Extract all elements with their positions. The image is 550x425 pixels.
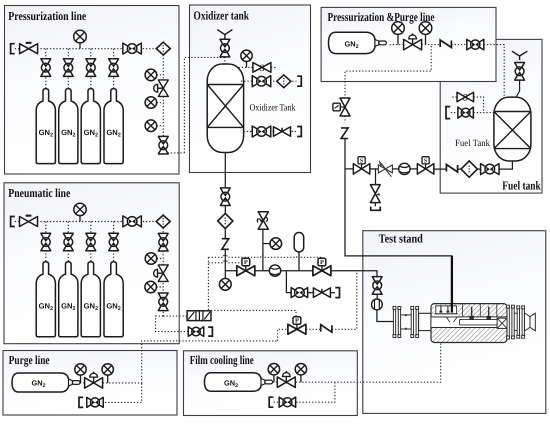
wire fuel line [434,168,446,170]
pressure regulator valve R8 [41,233,51,251]
svg-text:Oxidizer tank: Oxidizer tank [194,9,250,23]
engine body (hatched) [431,304,507,343]
box Pressurization line [5,6,180,175]
filter F1 [156,42,170,55]
pressure gauge PG7 [270,238,282,250]
wire vent to tank [224,57,226,65]
pressure gauge PG4 [145,120,157,132]
drain valve V7 [313,288,330,298]
wire riser to bottle 8 [113,222,115,262]
wire [376,294,378,299]
pipe end cap [297,76,301,86]
pressure regulator valve R1 [41,59,51,77]
pneumatic control valve CV2 [154,265,169,282]
solenoid manifold M1 [187,311,211,321]
wire tank top line [239,66,254,68]
wire [321,257,323,259]
pressure gauge PG3 [145,97,157,109]
flex hose N1 [321,325,332,333]
fill valve V3 [252,76,271,87]
pipe end cap [11,44,15,54]
svg-text:P: P [244,259,248,266]
vent funnel fuel [512,51,527,60]
flex hose N2 [440,40,451,48]
gas bottle GN2 #2 [59,89,78,164]
engine injector head [434,306,458,322]
wire gauge stub [156,286,163,288]
purge control valve CV4 [85,372,103,389]
wire [374,203,376,207]
wire gauge stub [157,102,164,104]
GN2 cylinder (purge) [12,373,80,392]
wire column [162,251,164,316]
wire oxidizer main line [225,270,331,272]
pipe end cap [208,327,212,336]
drain valve V4 [252,126,271,137]
purge control valve CV3 [404,33,422,50]
wire pneumatic header [15,221,157,223]
wire fuel outlet [498,161,512,169]
wire relief branch [375,169,377,185]
wire [474,97,484,113]
wire pressurization header [15,48,157,50]
valve with positioner V2 [123,43,142,54]
filter F3 [218,213,233,228]
box Pneumatic line [4,183,179,344]
wire column [162,228,164,233]
engine exit pipe [514,313,517,330]
wire [224,206,226,215]
svg-text:S: S [259,63,264,74]
wire oxidizer to test stand [331,271,377,277]
engine nozzle [525,313,536,331]
wire to tank [474,112,494,114]
wire [451,112,458,114]
pipe end cap [269,397,273,407]
wire [345,168,353,170]
wire [344,116,346,123]
engine inlet pipe 2 [419,313,431,330]
engine exit flange pair 2 [517,306,525,338]
pressure gauge PG6 [219,278,231,290]
pressure gauge PG8 [74,203,86,221]
wire purge to oxidizer line [332,272,357,330]
flex hose N3 [446,165,457,173]
wire [452,96,457,98]
wire gauge stub [157,125,164,127]
gas bottle GN2 #1 [36,89,55,164]
gas bottle GN2 #4 [104,89,123,164]
wire riser to bottle 5 [45,222,47,262]
pressure regulator valve R2 [63,59,73,77]
pipe end cap [79,397,83,407]
solenoid valve SV2 [417,157,434,174]
pressure gauge PG14 [102,364,113,383]
pipe end cap [11,217,15,227]
wire riser to bottle 4 [113,49,115,89]
manual valve V1 [20,42,38,54]
pressure regulator valve R9 [63,233,73,251]
purge drain valve V15 [87,397,104,407]
wire pilot line to PV3 [211,310,296,316]
pressure gauge PG12 [419,22,432,45]
wire riser to bottle 3 [90,49,92,89]
box Fuel tank [440,39,542,193]
pipe end cap [297,127,301,137]
pressure regulator valve R10 [86,233,96,251]
pressure gauge PG2 [145,69,157,81]
wire pilot line to PV2 [208,255,322,257]
pressure regulator R5 [158,136,168,154]
drain valve V5 [274,127,291,137]
box Purge line [3,351,177,416]
relief valve RV2 [257,212,268,230]
wire to vent valve [156,316,188,332]
wire [224,229,226,238]
vent valve V10 [188,327,204,337]
vent regulator valve RV1 [220,39,230,57]
svg-text:Oxidizer Tank: Oxidizer Tank [250,102,296,113]
solenoid valve SV3 [353,157,370,174]
wire film cooling line [296,344,441,383]
svg-text:Purge line: Purge line [9,353,50,367]
wire to manifold [163,315,187,317]
pressure gauge PG9 [145,253,157,265]
throttle valve TV1 [378,161,392,177]
wire accumulator stem [298,252,300,271]
oxidizer inlet valve R7 [372,277,382,295]
pressure regulator R13 [158,293,168,311]
pressure regulator valve R3 [86,59,96,77]
wire vent to tank [515,80,519,98]
pipe end cap [335,288,339,298]
filter F5 [461,161,477,177]
wire pilot line to PV1 [208,261,241,263]
vent funnel oxidizer [217,30,232,40]
engine cooling pins [470,307,490,319]
valve V12 [467,39,484,50]
fill valve V13 [458,107,474,118]
wire [390,44,404,46]
svg-text:S: S [463,92,468,103]
gas bottle GN2 #5 [36,262,55,337]
box Pressurization &Purge line [321,7,496,81]
wire to engine inlet [377,310,393,322]
wire riser to bottle 6 [67,222,69,262]
pressure regulator valve R11 [109,233,119,251]
pressure gauge PG15 [268,364,279,383]
wire drain branch [286,271,291,293]
wire [370,168,378,170]
shutoff valve S1 [253,63,271,74]
vent regulator valve RV3 [515,63,525,81]
pressure regulator valve R4 [109,59,119,77]
wire tank fill line [241,80,297,82]
wire purge drain [104,383,141,402]
engine throat insert [497,318,507,328]
wire [410,168,417,170]
box Test stand [363,231,546,414]
wire gauge drop [224,271,226,279]
pressure gauge PG11 [392,22,405,45]
wire pressurization to oxidizer tank [184,57,225,152]
vent cap [371,207,381,211]
wire [273,381,278,383]
box Film cooling line [184,351,358,416]
wire gauge stub [263,243,270,245]
wire riser to bottle 7 [90,222,92,262]
pipe end cap [446,107,450,119]
drain valve V6 [291,288,308,298]
flow meter FM1 [269,265,280,276]
pneumatic valve PV2 [313,258,331,276]
wire [422,44,441,46]
wire purge branch [345,46,431,98]
engine chamber bore [431,317,506,328]
wire purge to fuel tank [484,45,504,100]
GN2 cylinder (horizontal) [329,32,387,53]
film cooling control valve CV5 [277,371,295,388]
wire [308,292,335,294]
svg-text:P: P [320,259,324,266]
wire [224,250,226,271]
fuel tank vessel [494,97,531,161]
wire stub [271,66,276,68]
wire [458,168,461,170]
main oxidizer valve R6 [220,188,230,206]
engine fuel injection line [451,256,453,313]
engine inlet flange pair 2 [411,307,419,338]
wire purge riser [142,341,278,384]
flex hose Z1 [222,239,229,250]
pressure gauge PG10 [145,281,157,293]
wire purge into fuel line [344,139,346,169]
accumulator capsule [294,233,304,252]
pressure regulator R12 [158,233,168,251]
manual valve V8 [20,215,38,227]
wire [478,168,482,170]
shutoff valve S2 [457,92,474,103]
svg-text:Pressurization line: Pressurization line [8,9,86,23]
valve with positioner V9 [123,216,142,227]
flex hose Z2 [341,128,348,139]
wire relief branch [262,230,264,271]
wire [80,382,85,384]
pressure gauge PG16 [295,364,306,383]
wire [103,382,142,384]
solenoid valve SV1 [333,98,350,116]
gas bottle GN2 #3 [81,89,100,164]
svg-text:Film cooling line: Film cooling line [190,353,254,367]
pressure gauge PG13 [75,364,86,383]
wire riser to bottle 2 [67,49,69,89]
svg-text:Pneumatic line: Pneumatic line [8,186,70,200]
relief valve RV4 [370,185,380,203]
pressure gauge PG5 [241,50,252,67]
wire [451,44,466,46]
purge pneumatic valve PV3 [288,317,306,335]
filter F4 [156,215,170,228]
wire fuel line to engine [345,169,452,311]
oxidizer tank vessel [207,64,243,153]
svg-text:Fuel Tank: Fuel Tank [455,138,490,149]
wire [278,329,288,341]
pressure gauge PG1 [74,30,87,48]
sight glass SG1 [372,299,383,310]
wire [392,168,398,170]
wire tank drain line [244,131,297,133]
engine inlet pipe [401,315,411,329]
engine exit flange pair 1 [507,305,515,339]
wire gauge stub [157,74,164,76]
gas bottle GN2 #8 [104,262,123,337]
gas bottle GN2 #7 [81,262,100,337]
svg-text:P: P [295,317,299,324]
wire riser to bottle 1 [45,49,47,89]
svg-text:Test stand: Test stand [379,232,423,246]
pneumatic control valve CV1 [154,80,169,97]
box Oxidizer tank [190,5,311,173]
svg-text:Pressurization &Purge line: Pressurization &Purge line [328,10,435,24]
wire oxidizer feed [224,153,226,189]
engine inlet flange pair 1 [393,307,401,338]
pneumatic valve PV1 [237,258,255,276]
flow meter FM2 [399,163,410,174]
film drain valve V11 [279,397,296,407]
GN2 cylinder (film cooling) [205,373,273,391]
wire gauge stub [157,258,164,260]
wire film drain branch [274,382,335,402]
wire [306,328,321,330]
gas bottle GN2 #6 [59,262,78,337]
svg-text:Fuel tank: Fuel tank [502,179,541,193]
filter F2 [277,75,291,88]
fuel valve V14 [481,164,500,175]
wire pilot riser [207,257,209,310]
wire column [163,55,184,153]
